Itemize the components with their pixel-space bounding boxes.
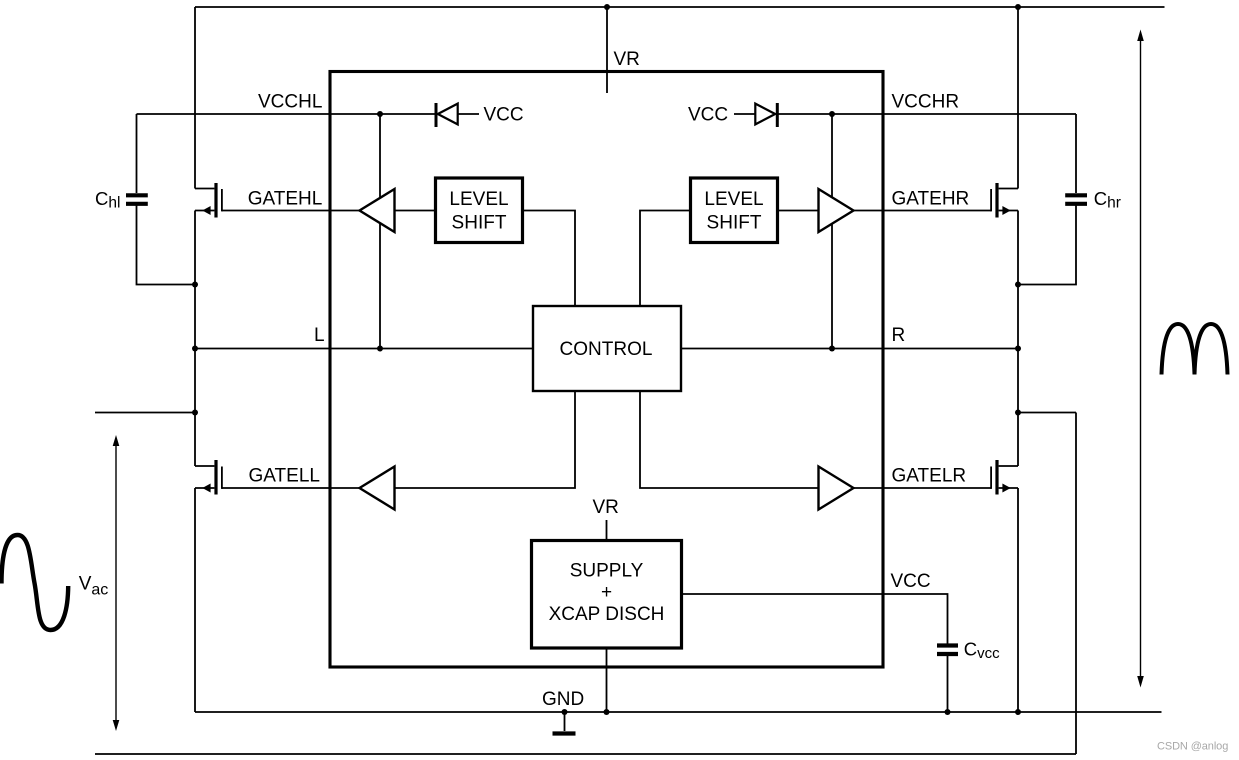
ground symbol (553, 731, 576, 735)
wire capacitor Chr bottom (1018, 206, 1076, 285)
wire bottom AC line (95, 753, 1076, 755)
wire capacitor Chr top (1075, 114, 1077, 193)
node R rail junction (1015, 346, 1021, 352)
wire GATEHL gate (222, 210, 360, 212)
capacitor Chl (126, 195, 148, 204)
wire node L horizontal (195, 348, 533, 350)
node right rail GND junction (1015, 709, 1021, 715)
svg-text:VCCHR: VCCHR (892, 92, 960, 113)
buffer U4 GATELR driver (819, 467, 854, 510)
svg-text:Vac: Vac (79, 574, 109, 599)
wire ground stem (564, 712, 566, 731)
wire level shift right to control (640, 211, 691, 307)
capacitor Chr (1065, 195, 1087, 204)
node left stub junction (192, 410, 198, 416)
transistor Q3 GATELL MOSFET (195, 460, 222, 495)
svg-text:Chr: Chr (1094, 188, 1121, 212)
svg-text:VR: VR (593, 497, 619, 518)
svg-text:GND: GND (542, 689, 584, 710)
measurement arrow Vac left (113, 435, 120, 731)
diode D2 VCC right (755, 103, 777, 127)
node L inner junction (377, 346, 383, 352)
svg-text:L: L (314, 325, 325, 346)
svg-text:GATELR: GATELR (892, 465, 967, 486)
node top right junction (1015, 4, 1021, 10)
svg-text:VCC: VCC (484, 105, 524, 126)
level shift block left (436, 178, 523, 243)
node VR top junction (604, 4, 610, 10)
measurement arrow right (1137, 30, 1144, 688)
IC main boundary box (330, 72, 883, 668)
load symbol m (1162, 324, 1228, 375)
wire VR pin supply (606, 520, 608, 541)
wire VCCHL to node L vertical (379, 114, 381, 349)
svg-text:LEVEL: LEVEL (449, 189, 508, 210)
svg-text:R: R (892, 325, 906, 346)
wire level shift right to buffer U2 (777, 210, 819, 212)
svg-text:VCC: VCC (688, 105, 728, 126)
wire VR pin top (606, 7, 608, 93)
wire VCCHL (137, 113, 437, 115)
wire VCCHR (779, 113, 1077, 115)
wire VCC label to diode D2 (734, 113, 756, 115)
wire capacitor Chl bottom (137, 206, 196, 285)
wire right AC vertical (1075, 413, 1077, 755)
wire top VR rail (195, 6, 1165, 8)
wire supply to GND (606, 648, 608, 712)
svg-text:GATEHL: GATEHL (248, 188, 323, 209)
buffer U2 GATEHR driver (819, 189, 854, 232)
transistor Q2 GATEHR MOSFET (991, 183, 1018, 218)
wire buffer U4 to GATELR gate (854, 487, 992, 489)
svg-text:Chl: Chl (95, 188, 120, 212)
wire left rail lower (194, 488, 196, 712)
AC source sine symbol (2, 535, 69, 630)
transistor Q4 GATELR MOSFET (991, 460, 1018, 495)
node supply GND junction (604, 709, 610, 715)
diode D1 VCC left (436, 103, 458, 127)
svg-text:SHIFT: SHIFT (452, 212, 507, 233)
node ground junction (562, 709, 568, 715)
svg-text:XCAP DISCH: XCAP DISCH (549, 604, 665, 625)
wire level shift left to control (523, 211, 576, 307)
wire GND horizontal (195, 711, 1162, 713)
svg-text:VCCHL: VCCHL (258, 92, 322, 113)
svg-text:+: + (601, 582, 612, 603)
svg-text:SHIFT: SHIFT (707, 212, 762, 233)
wire node R horizontal (681, 348, 1018, 350)
wire left rail upper (194, 7, 196, 189)
control block (533, 306, 681, 391)
wire right rail middle (1017, 211, 1019, 467)
svg-text:LEVEL: LEVEL (704, 189, 763, 210)
wire buffer U1 to level shift (395, 210, 437, 212)
wire left rail middle (194, 211, 196, 467)
svg-text:CONTROL: CONTROL (560, 339, 653, 360)
wire control to buffer U4 (640, 391, 819, 488)
wire control to buffer U3 (395, 391, 576, 488)
svg-text:CSDN @anlog: CSDN @anlog (1157, 741, 1228, 753)
node Cvcc GND junction (945, 709, 951, 715)
svg-text:VCC: VCC (891, 571, 931, 592)
svg-text:GATELL: GATELL (249, 465, 320, 486)
node VCCHL junction (377, 111, 383, 117)
supply xcap disch block (532, 541, 682, 649)
level shift block right (691, 178, 778, 243)
wire right rail upper (1017, 7, 1019, 189)
node Chl bottom junction (192, 282, 198, 288)
svg-text:Cvcc: Cvcc (964, 638, 1000, 662)
node Chr bottom junction (1015, 282, 1021, 288)
buffer U1 GATEHL driver (360, 189, 395, 232)
capacitor Cvcc (937, 646, 958, 655)
node R inner junction (829, 346, 835, 352)
node L rail junction (192, 346, 198, 352)
buffer U3 GATELL driver (360, 467, 395, 510)
wire capacitor Chl top (136, 114, 138, 193)
svg-text:VR: VR (614, 49, 640, 70)
wire diode D1 to VCC label (458, 113, 479, 115)
node VCCHR junction (829, 111, 835, 117)
svg-text:SUPPLY: SUPPLY (570, 561, 644, 582)
wire VCCHR to node R vertical (831, 114, 833, 349)
wire VCC output (682, 594, 948, 644)
node right stub junction (1015, 410, 1021, 416)
wire buffer U2 to GATEHR (854, 210, 992, 212)
transistor Q1 GATEHL MOSFET (195, 183, 222, 218)
wire buffer U3 to GATELL gate (222, 487, 360, 489)
wire right rail lower (1017, 488, 1019, 712)
wire right stub node R (1018, 412, 1076, 414)
wire capacitor Cvcc bottom (947, 656, 949, 712)
svg-text:GATEHR: GATEHR (892, 189, 970, 210)
wire left stub node L (95, 412, 195, 414)
